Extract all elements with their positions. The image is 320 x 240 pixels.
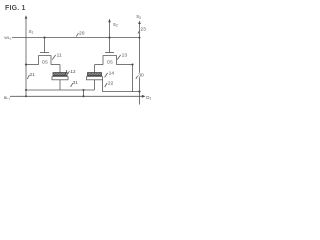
svg-text:WL1: WL1 — [4, 36, 12, 41]
svg-text:OS: OS — [107, 60, 113, 65]
svg-text:14: 14 — [109, 70, 115, 76]
svg-text:21: 21 — [30, 72, 36, 78]
svg-text:OS: OS — [42, 60, 48, 65]
svg-text:30: 30 — [138, 72, 144, 78]
svg-text:23: 23 — [140, 27, 146, 33]
svg-text:11: 11 — [57, 52, 62, 58]
svg-text:D1: D1 — [146, 95, 151, 101]
svg-text:S1: S1 — [29, 29, 34, 35]
svg-text:FIG. 1: FIG. 1 — [5, 5, 26, 12]
svg-text:S3: S3 — [136, 14, 141, 20]
svg-text:22: 22 — [108, 80, 114, 86]
svg-text:S2: S2 — [113, 22, 118, 28]
svg-text:31: 31 — [73, 80, 79, 86]
svg-text:13: 13 — [122, 52, 128, 58]
svg-text:12: 12 — [70, 69, 76, 75]
svg-text:20: 20 — [79, 30, 85, 36]
svg-text:BL1: BL1 — [4, 96, 11, 101]
